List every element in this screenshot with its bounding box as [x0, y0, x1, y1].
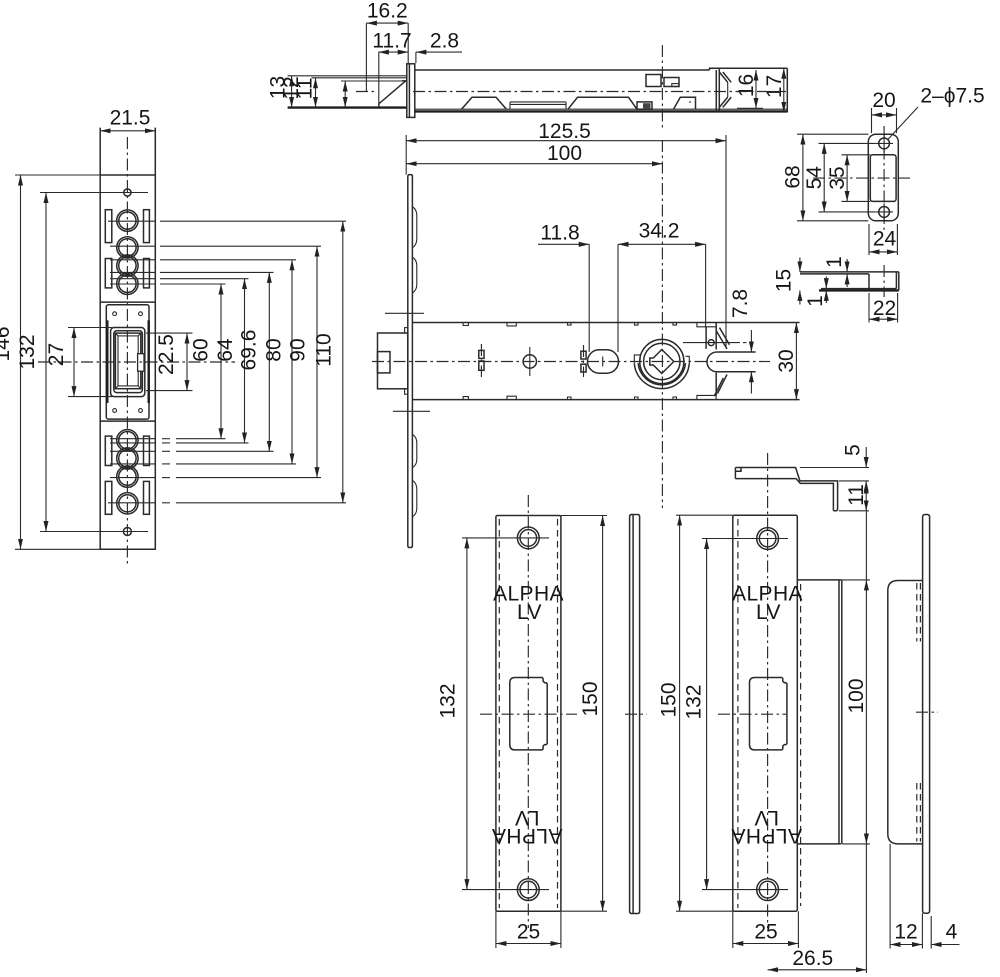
- svg-text:25: 25: [754, 921, 777, 944]
- dim 16.2 line: [366, 22, 408, 24]
- svg-text:5: 5: [842, 444, 865, 456]
- side rail thick right: [147, 320, 149, 403]
- latch throw line 11: [341, 80, 404, 82]
- faceplate bulge 1: [412, 207, 416, 248]
- dim 35 line: [846, 155, 848, 202]
- dim 11.7 line: [378, 51, 408, 53]
- dim 25 plate2 line: [733, 943, 799, 945]
- cylinder outer circle: [640, 339, 684, 383]
- case bottom edge: [412, 399, 799, 401]
- svg-text:2.8: 2.8: [430, 30, 459, 53]
- 125.5/100 extension left: [405, 135, 407, 175]
- svg-text:2–ϕ7.5: 2–ϕ7.5: [920, 85, 984, 108]
- dim 80 line: [291, 260, 293, 464]
- bottom bump 2: [568, 97, 637, 109]
- plate 1 bottom hole tick: [462, 889, 549, 891]
- case body top edge: [415, 69, 710, 71]
- dim 125.5 line: [406, 140, 726, 142]
- cylinder inner circle: [644, 343, 680, 379]
- dim 150 plate1 line: [602, 516, 604, 912]
- horizontal case centerline: [372, 361, 770, 363]
- svg-text:69.6: 69.6: [238, 330, 261, 371]
- pair A centerline: [480, 344, 482, 377]
- edge bolt bottom line: [717, 371, 756, 373]
- 2.8 extension: [415, 52, 417, 63]
- extension line lower y=502.8: [108, 502, 155, 504]
- faceplate strip outline: [100, 128, 155, 550]
- lower mounting slot right: [144, 481, 150, 514]
- case top edge: [412, 322, 799, 324]
- dim 12 line: [890, 944, 922, 946]
- svg-text:17: 17: [763, 75, 786, 98]
- dim 69.6 line: [268, 272, 270, 451]
- wing right double edge: [839, 580, 842, 844]
- dim 34.2 line: [618, 243, 706, 245]
- latch bolt side view body: [378, 333, 408, 389]
- strike section centerline: [883, 265, 885, 297]
- svg-text:68: 68: [782, 165, 805, 188]
- svg-text:146: 146: [0, 326, 14, 361]
- svg-text:150: 150: [579, 681, 602, 716]
- svg-text:ALPHA: ALPHA: [492, 824, 563, 847]
- svg-text:LV: LV: [517, 601, 542, 624]
- dim 24 line: [869, 251, 897, 253]
- top right box 1: [646, 75, 661, 87]
- dim 100 line: [406, 163, 662, 165]
- svg-text:100: 100: [547, 142, 582, 165]
- upper hub double circle: [117, 210, 138, 231]
- strike section right double wall: [896, 272, 898, 291]
- bottom small step rect: [637, 102, 652, 109]
- chevron lower: [719, 97, 731, 107]
- dim 150 plate2 line: [679, 515, 681, 911]
- svg-text:25: 25: [517, 921, 540, 944]
- horizontal centerline main: [413, 91, 786, 93]
- dim 110 line: [342, 221, 344, 503]
- cylinder vertical centerline: [661, 140, 663, 508]
- svg-text:20: 20: [872, 89, 895, 112]
- bottom rail between bumps: [510, 102, 566, 109]
- second slot pair left: [105, 259, 112, 288]
- svg-text:30: 30: [775, 349, 798, 372]
- latch bolt top short edge: [402, 80, 407, 82]
- dim 146 extensions: [15, 174, 100, 176]
- dim 26.5 line: [768, 969, 867, 971]
- latch throw line 13 (top): [288, 75, 407, 77]
- tail double wall: [716, 68, 719, 111]
- cam arc inner: [638, 363, 685, 385]
- horizontal centerline of latch: [38, 361, 235, 363]
- cam arc outer: [634, 363, 689, 388]
- svg-text:LV: LV: [756, 601, 781, 624]
- dim 22 line: [869, 318, 898, 320]
- extension line upper y=246.2: [110, 245, 155, 247]
- svg-text:110: 110: [313, 333, 336, 366]
- bottom bump 3: [674, 97, 696, 109]
- dim 16 line: [755, 70, 757, 108]
- plate fold edge at 146 datum: [100, 174, 155, 176]
- 54 extensions: [819, 143, 876, 212]
- middle strip inner line: [632, 515, 634, 914]
- edge bolt guide vertical 1: [705, 327, 707, 349]
- latch bolt collar top: [405, 328, 408, 333]
- latch bolt inner bevel: [118, 336, 138, 386]
- upper mounting slot left: [105, 210, 112, 243]
- dim 5 shafts: [865, 447, 867, 468]
- wing top edge: [797, 579, 841, 581]
- svg-text:150: 150: [658, 682, 681, 717]
- trigger pivot circle: [708, 340, 714, 346]
- latch bolt bevel diagonal: [379, 81, 406, 104]
- 16.2 extension right: [407, 23, 409, 63]
- svg-text:21.5: 21.5: [110, 107, 151, 130]
- second slot pair right: [144, 259, 150, 288]
- dim 15 shafts: [799, 258, 801, 272]
- bottom screw hole cross tick: [40, 531, 148, 533]
- faceplate bar cross-section: [407, 64, 415, 118]
- top right box 2: [664, 78, 679, 87]
- dim 68 line: [802, 134, 804, 221]
- plate 1 top screw hole: [517, 527, 539, 549]
- vertical centerline at cylinder axis: [661, 45, 663, 130]
- dim 60 line: [220, 284, 222, 439]
- strike section bottom inner: [821, 288, 896, 290]
- spring anchor pair B: [581, 351, 586, 359]
- svg-text:22: 22: [873, 297, 896, 320]
- extension line lower y=451.3: [110, 450, 155, 452]
- angle bracket inner line: [735, 479, 833, 511]
- dim 22.5 line: [186, 333, 188, 391]
- trigger pivot line: [683, 342, 740, 344]
- dim 22.5 extensions: [146, 332, 193, 334]
- 11.8 extension left: [588, 244, 590, 352]
- dim 64 line: [244, 279, 246, 443]
- plate 1 bottom screw hole: [517, 879, 539, 901]
- vertical centerline: [126, 137, 128, 564]
- trigger finger upper: [716, 328, 729, 349]
- strike section left wall: [868, 274, 870, 291]
- svg-text:54: 54: [803, 166, 826, 190]
- strip top edge / 21.5 dimension line: [100, 130, 155, 132]
- plate 2 top hole tick: [702, 538, 788, 540]
- faceplate joint tick lower: [393, 410, 430, 412]
- 20 extensions: [872, 108, 897, 133]
- case body top edge step: [710, 68, 788, 70]
- box 2 notch: [672, 84, 679, 87]
- dim 132 line: [45, 193, 47, 532]
- bottom bump 1: [462, 97, 507, 109]
- lower mounting slot left: [105, 481, 112, 514]
- faceplate bulge 2: [412, 257, 416, 293]
- strike section lip underside: [800, 273, 869, 275]
- svg-text:1: 1: [804, 295, 827, 307]
- dim 27 extensions: [68, 327, 112, 329]
- 11.7 extension: [378, 52, 380, 104]
- side strip plate: [923, 515, 930, 914]
- strike section top line: [800, 271, 899, 273]
- svg-text:80: 80: [263, 338, 286, 361]
- strike cutout: [870, 155, 896, 202]
- dim 25 plate1 extensions: [496, 911, 561, 948]
- svg-text:26.5: 26.5: [792, 947, 833, 970]
- svg-text:22.5: 22.5: [155, 334, 178, 375]
- svg-text:27: 27: [45, 343, 68, 366]
- dim 132 plate2 line: [706, 539, 708, 890]
- strike top screw hole: [879, 138, 890, 149]
- case bottom plate thick: [415, 110, 788, 112]
- spring anchor pair A: [479, 350, 484, 358]
- plate 2 bottom hole tick: [702, 889, 788, 891]
- hub small circle: [523, 355, 536, 368]
- bump 3 dot: [689, 101, 691, 103]
- svg-text:11: 11: [845, 484, 868, 506]
- dim 146 line: [20, 175, 22, 549]
- dim 12 line: [315, 78, 317, 108]
- side rail thick left: [106, 320, 108, 403]
- case right end cap: [786, 68, 788, 112]
- trigger pivot line dash: [743, 342, 747, 344]
- bracket centerline: [767, 453, 769, 928]
- angle bracket left end cap: [735, 468, 741, 479]
- svg-text:15: 15: [773, 269, 796, 292]
- top screw hole cross ticks: [40, 192, 148, 194]
- case top tabs: [463, 323, 676, 326]
- case bottom inner line: [415, 108, 788, 110]
- svg-text:ALPHA: ALPHA: [731, 824, 802, 847]
- middle strip: [630, 515, 640, 914]
- wing bottom edge: [797, 843, 841, 845]
- extension line lower y=438.7: [110, 438, 155, 440]
- svg-text:132: 132: [437, 683, 460, 718]
- plate 1 centerline: [527, 495, 529, 928]
- dim 30 line: [795, 323, 797, 400]
- bottom screw hole: [123, 528, 131, 536]
- svg-text:34.2: 34.2: [639, 220, 680, 243]
- latch mounting plate: [106, 305, 149, 419]
- side strip hidden lines: [917, 583, 921, 842]
- svg-text:35: 35: [826, 166, 849, 189]
- oval slot: [588, 350, 619, 373]
- plate 1 latch cutout: [510, 678, 547, 750]
- lower slot pair upper-right: [144, 436, 150, 465]
- latch side tab: [138, 354, 144, 372]
- svg-text:16: 16: [735, 74, 758, 97]
- common vertical line mid part: [865, 511, 867, 580]
- dim 5/11 extensions: [839, 481, 869, 511]
- trigger finger lower: [714, 375, 727, 397]
- strike horizontal centerline: [813, 177, 910, 179]
- svg-text:24: 24: [873, 228, 897, 251]
- lower wavy adjustment slot lobes: [117, 430, 138, 451]
- latch section top edge: [100, 301, 155, 303]
- svg-text:60: 60: [190, 338, 213, 361]
- plate 1 hidden lines: [499, 519, 557, 908]
- latch bolt face: [115, 333, 140, 389]
- dim 17 line: [783, 68, 785, 112]
- extension line upper y=221.2: [108, 220, 155, 222]
- 16 extension: [737, 107, 763, 109]
- dim 11 line: [865, 483, 867, 511]
- 34.2 extension right: [705, 244, 707, 326]
- case bottom tabs: [463, 396, 676, 399]
- svg-text:11.7: 11.7: [372, 30, 411, 53]
- plate 1 outline: [496, 516, 561, 912]
- dim 20 line: [872, 114, 897, 116]
- edge bolt guide vertical 2: [715, 323, 717, 396]
- bottom surface thick line: [288, 106, 407, 108]
- chevron upper: [719, 72, 731, 82]
- extension line upper y=284.0: [110, 283, 155, 285]
- horizontal centerline left piece: [356, 91, 377, 93]
- common vertical line lower part: [865, 844, 867, 973]
- strike vertical centerline: [883, 126, 885, 230]
- plate corner screw holes: [113, 312, 117, 316]
- 68 extensions: [797, 134, 868, 221]
- svg-text:64: 64: [214, 338, 237, 362]
- strike bottom screw hole: [879, 207, 890, 218]
- extension line upper y=272.4: [110, 271, 155, 273]
- cylinder keyway diamond: [650, 350, 674, 374]
- leader 2-phi7.5: [888, 107, 918, 140]
- dim 2.8 leader: [416, 51, 462, 53]
- svg-text:90: 90: [287, 338, 310, 361]
- case bottom notch at bolt: [697, 395, 716, 399]
- extension line upper y=259.8: [110, 259, 155, 261]
- 24 extensions: [869, 224, 897, 255]
- cam arc left end tab: [634, 355, 640, 364]
- bottom small dark insert: [643, 103, 651, 108]
- faceplate bulge 4: [412, 480, 416, 517]
- bevel corner diagonals: [115, 333, 140, 389]
- dim 27 line: [73, 328, 75, 397]
- svg-text:1: 1: [823, 256, 846, 268]
- svg-text:4: 4: [946, 921, 958, 944]
- 22 extensions: [869, 293, 898, 323]
- plate 1 top hole tick: [462, 537, 549, 539]
- latch guide rounded rect: [111, 328, 145, 397]
- latch guide inner rect: [114, 331, 143, 393]
- svg-text:125.5: 125.5: [538, 120, 591, 143]
- edge bolt top line: [717, 351, 756, 353]
- plates horizontal centerline ticks: [480, 712, 938, 714]
- strip bottom edge: [100, 548, 155, 550]
- chevron middle vertical: [727, 82, 729, 97]
- svg-text:11.8: 11.8: [540, 222, 579, 245]
- 125.5 extension right: [725, 135, 727, 348]
- dim 4 leader: [931, 944, 959, 946]
- latch bolt tip edge: [378, 104, 380, 107]
- edge bolt head semicircle: [707, 352, 717, 372]
- extension line lower y=477.6: [110, 477, 155, 479]
- faceplate bulge 3: [412, 434, 416, 467]
- dim 12 extensions: [890, 844, 931, 949]
- top screw hole: [124, 189, 131, 196]
- strike plate outline: [868, 134, 898, 221]
- dim 25 plate1 line: [496, 943, 561, 945]
- lower slot pair upper-left: [105, 436, 112, 465]
- faceplate joint tick upper: [385, 312, 424, 314]
- svg-text:11: 11: [294, 78, 317, 100]
- oval center tick: [602, 357, 604, 367]
- extension line lower y=442.9: [110, 442, 155, 444]
- svg-text:100: 100: [845, 678, 868, 713]
- dim 25 plate2 extensions: [733, 911, 799, 948]
- 35 extensions: [842, 155, 871, 202]
- side strip box bulge: [888, 581, 923, 844]
- strike section bottom thick: [819, 289, 899, 291]
- svg-text:132: 132: [683, 684, 706, 719]
- latch section bottom edge: [100, 420, 155, 422]
- wing/100 extension top: [841, 579, 870, 581]
- strike top hole ticks: [875, 135, 893, 152]
- latch bolt collar bottom: [405, 389, 408, 394]
- svg-text:7.8: 7.8: [729, 289, 752, 318]
- extension line lower y=463.9: [110, 463, 155, 465]
- pair B centerline: [583, 345, 585, 377]
- svg-text:132: 132: [16, 334, 39, 369]
- svg-text:16.2: 16.2: [367, 0, 408, 23]
- faceplate edge-on front line: [408, 175, 413, 548]
- dim 11 line: [344, 81, 346, 107]
- plate 2 bottom screw hole: [757, 879, 779, 901]
- lower hub double circle: [117, 493, 138, 514]
- dim 5 extension: [800, 467, 869, 469]
- latch bolt tip inner: [378, 352, 391, 373]
- plate 2 outline: [733, 515, 798, 911]
- plate 2 hidden lines: [738, 519, 801, 908]
- hub vertical tick: [529, 347, 531, 376]
- plate 2 top screw hole: [757, 528, 779, 550]
- cam arc right end cap: [686, 356, 690, 363]
- angle bracket outer line: [735, 468, 837, 511]
- latch throw line 12: [312, 77, 407, 79]
- plate 2 latch cutout: [750, 678, 787, 750]
- dim 13 line: [291, 76, 293, 108]
- upper wavy adjustment slot lobes: [117, 237, 138, 258]
- case top notch at bolt: [697, 323, 716, 327]
- upper mounting slot right: [144, 210, 150, 243]
- dim 1 left shafts: [825, 277, 827, 289]
- 11.8/34.2 extension mid: [617, 244, 619, 352]
- 16.2 extension left: [365, 23, 367, 91]
- strike bottom hole ticks: [875, 203, 893, 220]
- dim 100 line: [865, 580, 867, 844]
- faceplate bar inner wall: [408, 64, 410, 118]
- extension line upper y=278.7: [110, 278, 155, 280]
- svg-text:12: 12: [894, 921, 917, 944]
- 150 plate2 extensions: [676, 515, 733, 911]
- 150 plate1 extensions: [561, 516, 607, 912]
- dim 1 top shafts: [846, 259, 848, 272]
- dim 54 line: [823, 143, 825, 212]
- dim 90 line: [316, 246, 318, 477]
- dim 7.8 lower shaft: [750, 372, 752, 394]
- wing/100 extension bottom: [842, 843, 870, 845]
- dim 11.8 leader: [538, 243, 589, 245]
- dim 7.8 upper shaft: [750, 330, 752, 352]
- dim 132 plate1 line: [466, 538, 468, 890]
